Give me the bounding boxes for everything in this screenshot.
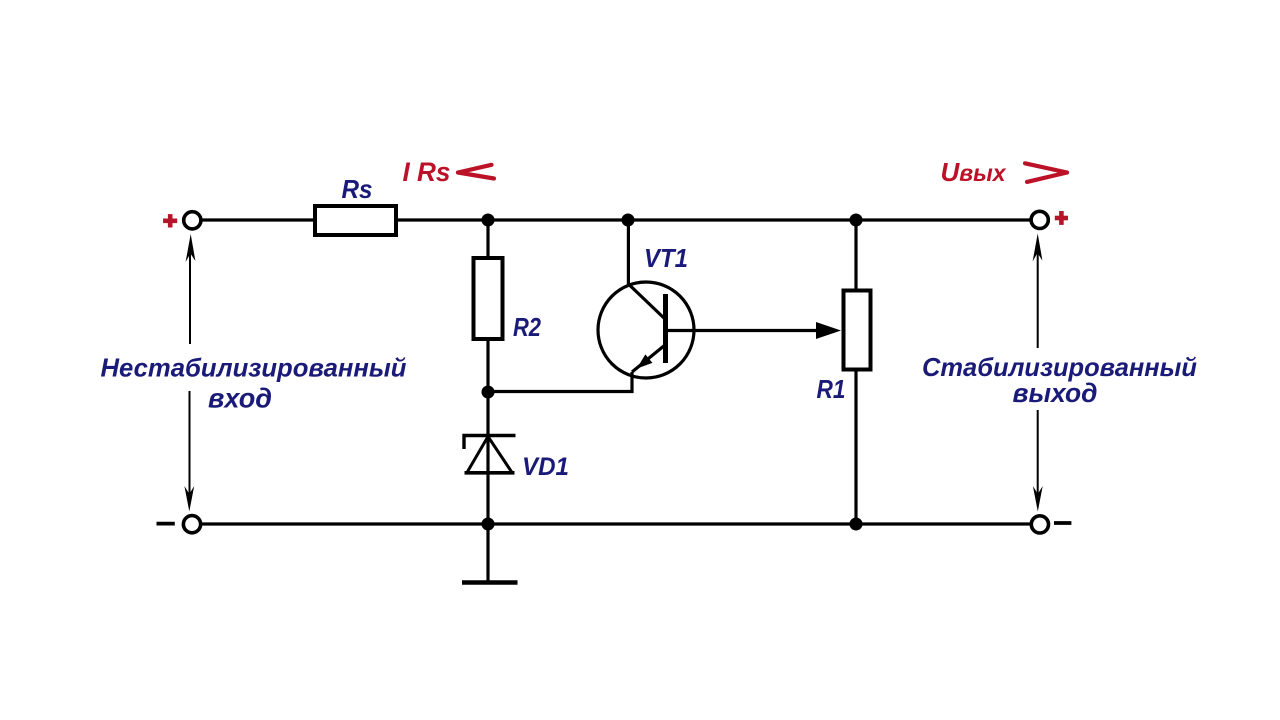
svg-text:выход: выход: [1013, 378, 1098, 408]
svg-text:Uвых: Uвых: [940, 157, 1006, 187]
wire R1 top lead: [854, 220, 857, 291]
arrow less-than (red): [458, 165, 494, 179]
svg-text:вход: вход: [208, 383, 272, 414]
ground: [486, 524, 489, 581]
svg-text:VD1: VD1: [522, 453, 569, 481]
resistor Rs: [315, 206, 396, 235]
svg-text:R2: R2: [513, 312, 541, 342]
label minus left: [157, 522, 175, 526]
svg-text:I Rs: I Rs: [403, 157, 451, 187]
wire base lead to R1 wiper: [667, 329, 822, 332]
arrow greater-than (red): [1025, 163, 1067, 182]
wire collector lead: [627, 220, 630, 285]
zener diode VD1: [464, 392, 516, 524]
wire top rail left segment: [201, 218, 316, 221]
label minus right: [1054, 521, 1071, 525]
resistor R2: [474, 258, 503, 339]
terminal input plus: [184, 212, 201, 229]
terminal output minus: [1031, 516, 1048, 533]
node C junction bottom rail / ground: [482, 518, 495, 531]
node B junction R2/VD1/emitter: [482, 386, 495, 399]
wire bottom rail: [201, 522, 1030, 525]
node F junction bottom of R1: [850, 518, 863, 531]
label unstabilized input: [101, 353, 407, 414]
node E junction top of R1: [850, 214, 863, 227]
terminal input minus: [183, 516, 200, 533]
wire emitter to node B: [488, 372, 632, 392]
node D junction collector: [622, 214, 635, 227]
measure arrow output: [1033, 234, 1043, 512]
label stabilized output: [922, 352, 1197, 408]
svg-text:Rs: Rs: [342, 174, 373, 204]
label plus left (red): [163, 214, 177, 227]
svg-text:Нестабилизированный: Нестабилизированный: [101, 353, 407, 383]
terminal output plus: [1031, 211, 1048, 228]
measure arrow input: [184, 234, 195, 512]
svg-text:VT1: VT1: [644, 243, 688, 273]
wire R2 top lead: [486, 220, 489, 258]
wire top rail right segment: [396, 218, 1031, 221]
arrowhead wiper: [816, 322, 841, 339]
transistor VT1: [598, 282, 694, 378]
svg-text:R1: R1: [817, 374, 846, 404]
potentiometer R1: [844, 291, 871, 370]
node A junction top of R2: [482, 214, 495, 227]
wire R1 bottom lead: [854, 369, 857, 524]
wire R2 bottom lead: [486, 339, 489, 392]
label plus right (red): [1055, 211, 1068, 225]
